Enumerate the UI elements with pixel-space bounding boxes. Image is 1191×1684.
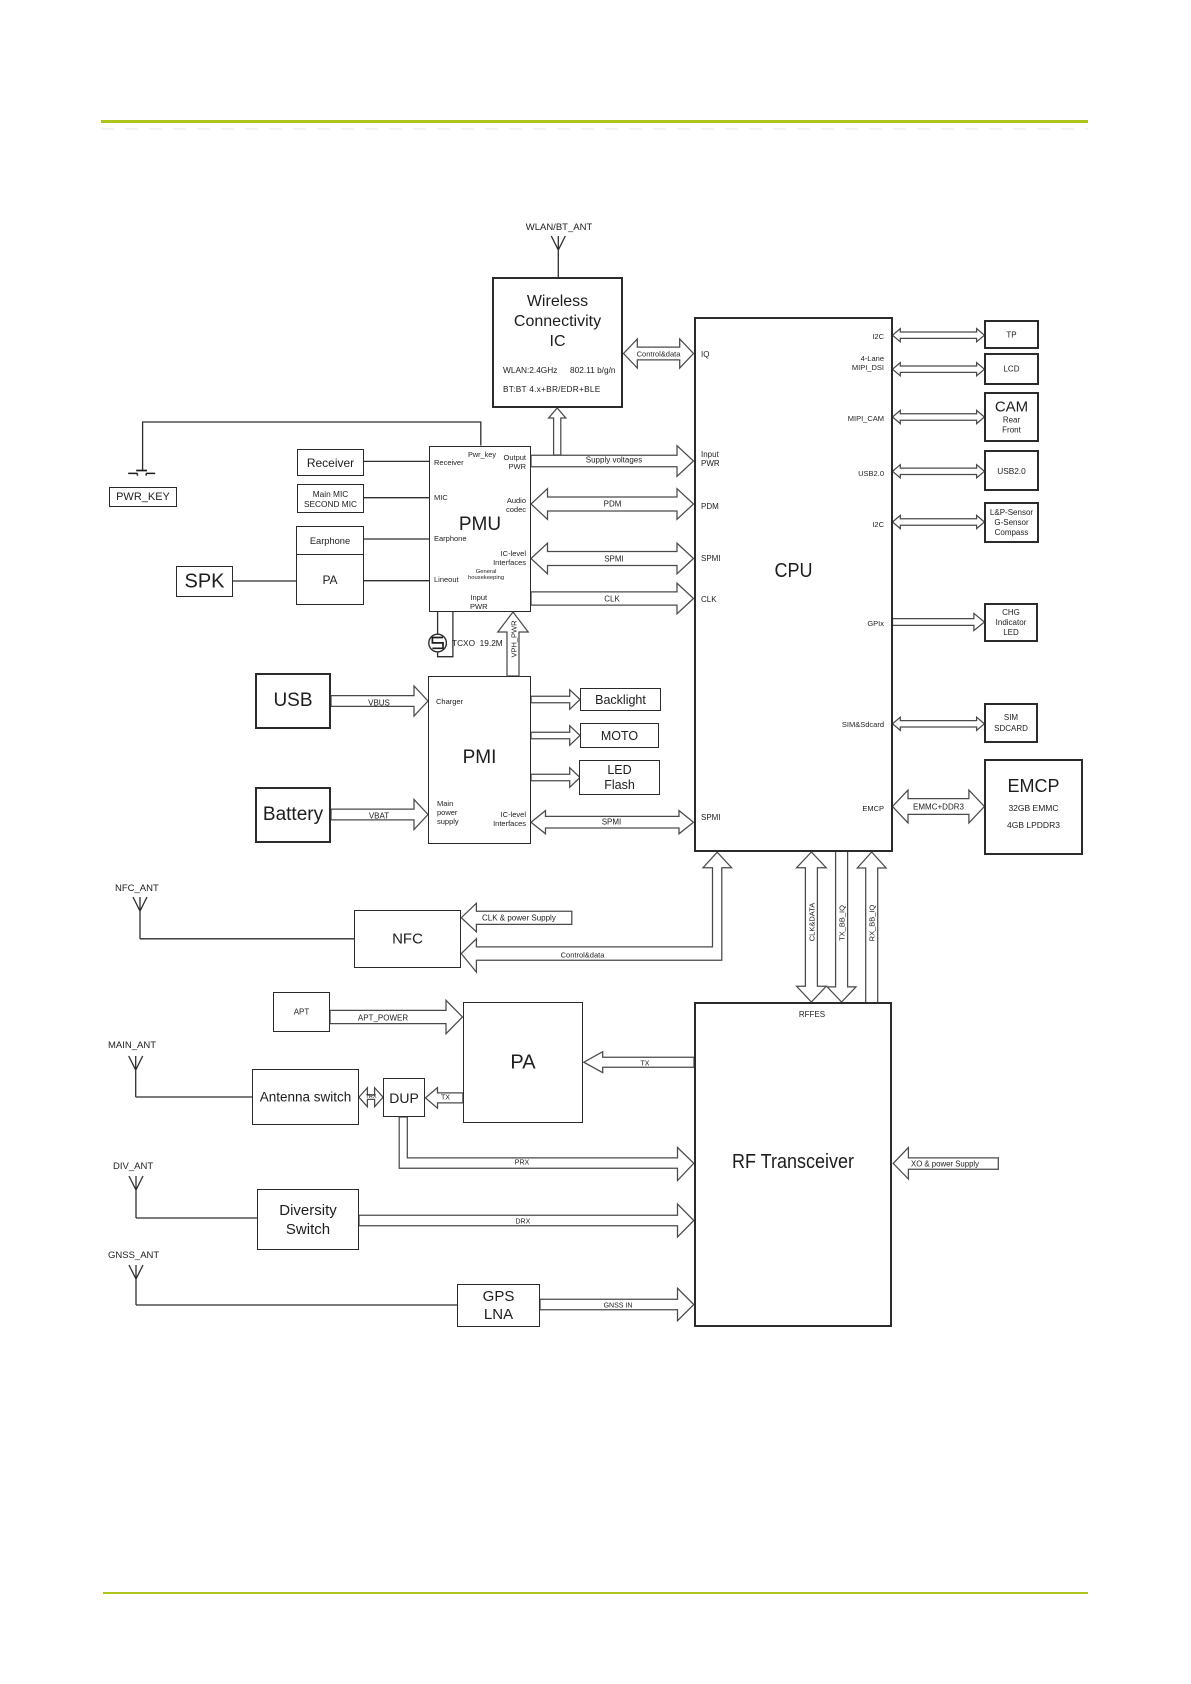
arrow VBAT Battery-PMI	[331, 800, 428, 830]
wire MAIN_ANT-AntennaSwitch	[136, 1096, 252, 1098]
net label WLAN/BT_ANT	[500, 222, 618, 233]
wire Lineout PA-PMU	[364, 580, 429, 582]
block LED Flash	[579, 760, 660, 795]
label GNSS IN	[604, 1303, 633, 1310]
block Diversity Switch	[257, 1189, 359, 1250]
label PRX	[515, 1159, 529, 1166]
antenna NFC_ANT	[133, 897, 147, 939]
block LCD	[984, 353, 1039, 385]
power key symbol	[136, 470, 147, 472]
arrow RX_BB_IQ RF-CPU	[857, 852, 886, 1003]
net label DIV_ANT	[113, 1161, 153, 1172]
wire PWR_KEY net	[143, 422, 481, 470]
arrow XO & power Supply stub-RF	[893, 1148, 998, 1179]
arrow PMI-LEDFlash	[531, 768, 580, 788]
label Control&data WCN	[637, 349, 681, 358]
antenna MAIN_ANT	[129, 1056, 143, 1097]
arrow VBUS USB-PMI	[331, 686, 428, 716]
arrow CLK&DATA CPU-RF	[797, 852, 827, 1002]
label SPMI PMI	[602, 818, 622, 827]
arrow Control&data CPU-NFC L-shaped	[461, 852, 731, 972]
block GPS LNA	[457, 1284, 540, 1327]
block PMU U-PMU	[429, 446, 531, 612]
label TX PA-DUP	[441, 1094, 450, 1101]
wire Earphone-PMU	[364, 538, 429, 540]
arrow TX RF-PA	[584, 1052, 694, 1073]
wire PMU-TCXO	[437, 612, 439, 634]
block PA audio amp	[296, 554, 364, 605]
arrow APT_POWER APT-PA	[330, 1000, 463, 1033]
block PWR_KEY	[109, 487, 177, 507]
label CLK&DATA vertical	[807, 903, 816, 941]
block EMCP memory	[984, 759, 1083, 855]
arrow SPMI PMU-CPU	[531, 543, 694, 574]
wire TCXO loop	[438, 612, 453, 657]
block RF Transceiver	[694, 1002, 892, 1327]
arrow PDM PMU-CPU	[531, 489, 694, 520]
block NFC	[354, 910, 461, 968]
arrow SIM&Sdcard CPU-SIM	[893, 717, 985, 730]
label Control&data NFC	[561, 950, 605, 959]
block Backlight	[580, 688, 661, 711]
top rule	[101, 120, 1088, 123]
wire SPK-PA	[233, 580, 296, 582]
arrow VPH_PWR PMI-PMU	[498, 612, 528, 676]
arrow MIPI_DSI CPU-LCD	[893, 363, 985, 376]
label TX_BB_IQ vertical	[837, 905, 846, 941]
arrow I2C CPU-Sensors	[893, 515, 985, 528]
arrow TX_BB_IQ CPU-RF	[827, 851, 856, 1002]
block CHG Indicator LED	[984, 603, 1038, 642]
bottom rule	[103, 1592, 1088, 1594]
wire MIC-PMU	[364, 497, 429, 499]
block DUP duplexer	[383, 1078, 425, 1117]
label Supply voltages	[586, 456, 642, 465]
block USB connector	[255, 673, 331, 729]
antenna WLAN/BT_ANT	[551, 236, 565, 277]
TCXO crystal symbol	[429, 634, 447, 652]
block L&P-Sensor G-Sensor Compass	[984, 502, 1039, 543]
label XO & power Supply	[911, 1159, 979, 1168]
wire DIV_ANT-DiversitySwitch	[136, 1217, 257, 1219]
net label MAIN_ANT	[108, 1040, 156, 1051]
block Antenna switch	[252, 1069, 359, 1125]
arrow CLK PMU-CPU	[531, 583, 694, 614]
arrow up to Wireless IC	[549, 408, 566, 455]
block CPU	[694, 317, 893, 853]
block PMI U-PMI	[428, 676, 531, 844]
block Earphone	[296, 526, 364, 556]
arrow GNSS IN GPSLNA-RF	[540, 1288, 694, 1320]
block TP touch panel	[984, 320, 1039, 349]
arrow PMI-MOTO	[531, 726, 580, 746]
label TX RF-PA	[641, 1060, 650, 1067]
arrow USB2.0 CPU-USB2.0	[893, 465, 985, 478]
wire NFC_ANT-NFC	[140, 938, 354, 940]
label EMMC+DDR3	[913, 802, 964, 811]
label SPMI PMU	[604, 554, 624, 563]
block SIM SDCARD	[984, 703, 1038, 743]
arrow CLK & power Supply stub-NFC	[461, 903, 572, 932]
net label GNSS_ANT	[108, 1250, 159, 1261]
block Battery	[255, 787, 331, 843]
arrow Supply voltages PMU-CPU	[531, 446, 694, 477]
arrow PMI-Backlight	[531, 690, 580, 710]
label TRX	[366, 1094, 377, 1100]
label APT_POWER	[358, 1013, 408, 1022]
arrow DRX DiversitySwitch-RF	[359, 1204, 694, 1237]
arrow MIPI_CAM CPU-CAM	[893, 410, 985, 423]
label CLK & power Supply	[482, 913, 556, 922]
label RX_BB_IQ vertical	[868, 905, 877, 942]
block SPK speaker	[176, 566, 233, 597]
label DRX	[516, 1218, 531, 1225]
top faint dashes	[101, 128, 1088, 130]
label VPH_PWR vertical	[509, 620, 518, 657]
antenna DIV_ANT	[129, 1176, 143, 1218]
block Wireless Connectivity IC U-WCN	[492, 277, 623, 408]
label CLK	[604, 594, 620, 603]
antenna GNSS_ANT	[129, 1265, 143, 1305]
block PA RF power amp	[463, 1002, 583, 1123]
arrow I2C CPU-TP	[893, 329, 985, 342]
block Receiver	[297, 449, 364, 476]
arrow Control&data WirelessIC-CPU	[624, 339, 694, 368]
block MOTO vibrator	[580, 723, 659, 748]
label VBUS	[368, 698, 390, 707]
arrow PRX DUP-RF L-shaped	[399, 1117, 694, 1181]
label TCXO 19.2M	[452, 638, 503, 648]
arrow EMMC+DDR3 CPU-EMCP	[893, 790, 985, 823]
arrow SPMI PMI-CPU	[531, 811, 694, 834]
block Main MIC / SECOND MIC	[297, 484, 364, 513]
block APT	[273, 992, 330, 1032]
net label NFC_ANT	[115, 883, 159, 894]
arrow GPIx CPU-CHGLED	[893, 613, 985, 630]
label PDM	[604, 500, 622, 509]
arrow TRX AntennaSwitch-DUP	[359, 1088, 383, 1107]
block CAM Rear Front	[984, 392, 1039, 442]
wire GNSS_ANT-GPSLNA	[136, 1304, 457, 1306]
label VBAT	[369, 811, 389, 820]
wire Receiver-PMU	[364, 460, 429, 462]
block USB2.0	[984, 450, 1039, 491]
arrow TX PA-DUP	[425, 1088, 463, 1109]
